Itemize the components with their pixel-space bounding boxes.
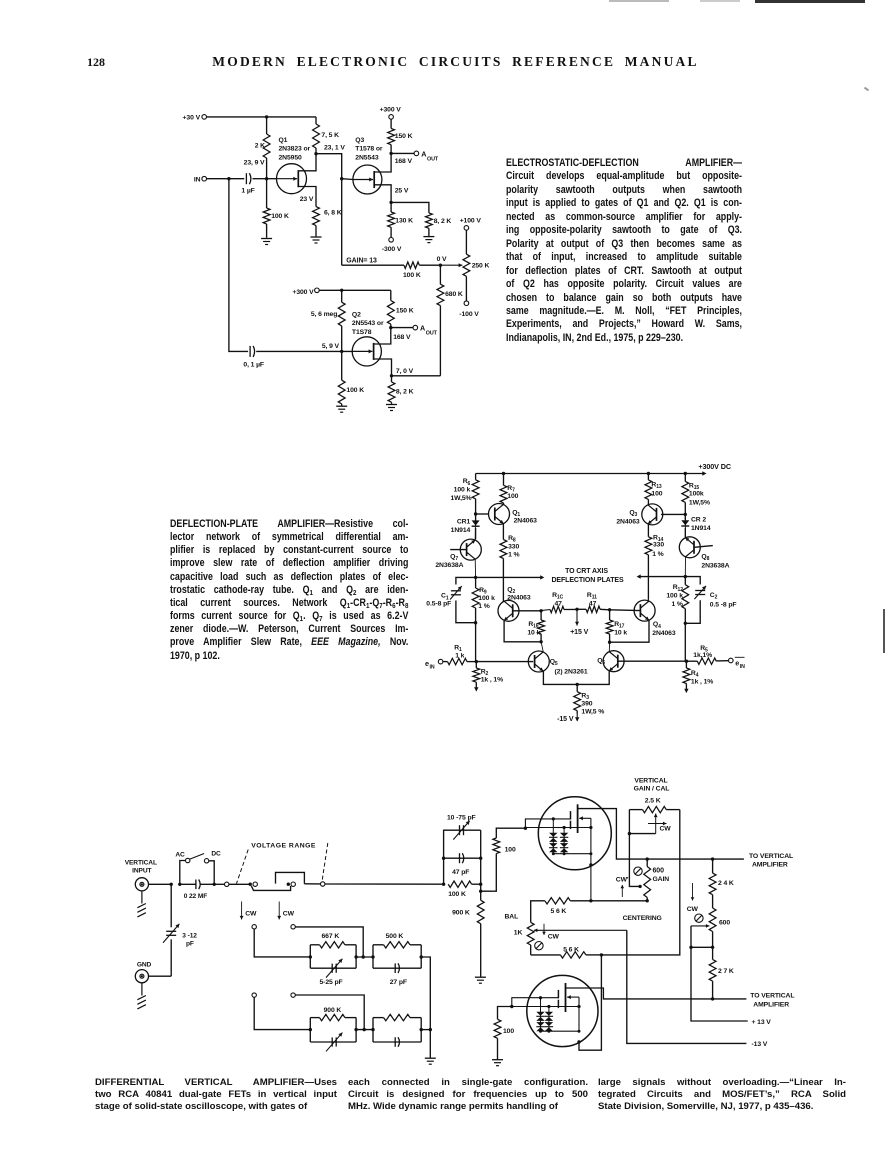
adjust symbol 600 output <box>695 914 703 922</box>
page number 128 <box>87 55 105 70</box>
label TO VERTICAL AMPLIFIER upper <box>749 853 793 869</box>
capacitor 27pF <box>373 963 421 985</box>
svg-text:CW': CW' <box>616 877 629 884</box>
resistor 150K Q3 <box>388 119 413 153</box>
terminal A OUT Q3 <box>391 149 439 162</box>
capacitor 10-75pF variable <box>444 814 481 884</box>
wire Q8 leads <box>684 514 686 576</box>
svg-text:23 V: 23 V <box>300 196 314 203</box>
transistor Q4 2N4063 <box>634 600 676 637</box>
svg-text:600: 600 <box>653 867 665 874</box>
page title <box>13 54 885 70</box>
resistor 130K <box>388 202 413 237</box>
resistor R17 10k <box>606 610 627 642</box>
wire Q2 emitter <box>504 620 541 641</box>
svg-text:CW: CW <box>660 826 672 833</box>
svg-text:+ 13 V: + 13 V <box>752 1019 772 1026</box>
wire gain line horizontal <box>342 264 404 266</box>
svg-text:1k,1%: 1k,1% <box>693 652 712 659</box>
wire +300V DC rail <box>476 471 707 475</box>
connector vertical input jack <box>135 878 148 891</box>
node IN branch <box>227 177 230 180</box>
node Q3 gate <box>340 177 343 180</box>
svg-text:47 pF: 47 pF <box>452 869 469 876</box>
transistor Q1 2N3823/2N5950 JFET <box>277 137 311 194</box>
svg-text:R13: R13 <box>651 482 661 491</box>
transistor Q7 2N3638A <box>435 539 481 569</box>
adjust symbol 600 GAIN <box>634 867 642 875</box>
svg-text:0, 1 µF: 0, 1 µF <box>243 361 264 368</box>
terminal +30 V <box>183 115 207 122</box>
resistor R12 100k 1% <box>666 577 688 662</box>
svg-text:330: 330 <box>653 541 664 548</box>
node Q1 gate <box>265 177 277 180</box>
svg-text:AC: AC <box>175 851 185 858</box>
resistor R14 330 1% <box>645 524 664 600</box>
svg-text:IN: IN <box>740 664 745 670</box>
resistor 5.6K upper <box>531 898 648 923</box>
svg-text:VERTICAL: VERTICAL <box>125 859 157 866</box>
svg-text:100: 100 <box>505 847 516 854</box>
svg-text:1 %: 1 % <box>508 552 519 559</box>
resistor R6 100k <box>450 474 479 515</box>
node R16 bottom <box>539 640 542 643</box>
svg-text:C2: C2 <box>710 592 718 601</box>
node after 0.22MF <box>213 883 216 886</box>
svg-text:5-25 pF: 5-25 pF <box>320 979 343 986</box>
node source bus <box>600 953 603 956</box>
wire Q3 source 25V <box>374 185 409 203</box>
wire Q2 base to R16 <box>513 610 541 612</box>
capacitor C2 0.5-8pF variable <box>685 577 736 624</box>
capacitor variable combo3 <box>310 1033 356 1052</box>
ground range combos <box>425 1058 436 1064</box>
svg-text:250 K: 250 K <box>472 262 490 269</box>
svg-text:TO CRT AXIS: TO CRT AXIS <box>565 568 608 575</box>
svg-text:6, 8 K: 6, 8 K <box>324 210 342 217</box>
resistor R5 1k 1% <box>686 645 728 665</box>
node R2 top <box>475 660 478 663</box>
wire Q4 base <box>610 609 641 612</box>
node +15V <box>575 608 578 611</box>
svg-text:25 V: 25 V <box>395 188 409 195</box>
svg-text:150 K: 150 K <box>395 133 413 140</box>
node combo2 left <box>371 955 374 958</box>
resistor R1 1k <box>443 645 476 665</box>
svg-text:47: 47 <box>555 600 563 607</box>
svg-text:Q8: Q8 <box>701 554 709 563</box>
terminal -300V <box>382 238 402 254</box>
svg-text:7, 5 K: 7, 5 K <box>321 132 339 139</box>
label VOLTAGE RANGE <box>251 843 316 850</box>
terminal A OUT Q2 <box>391 324 438 337</box>
svg-text:0 V: 0 V <box>437 256 447 263</box>
svg-text:IN: IN <box>430 664 435 670</box>
node bank1 switch joint <box>362 955 365 958</box>
svg-text:2.5 K: 2.5 K <box>645 798 661 805</box>
wire Q4 collector <box>647 600 649 601</box>
wire centering to -13V <box>627 930 747 1043</box>
transistor Q2 2N5543/T1S78 JFET <box>352 311 384 366</box>
ground GND jack <box>137 983 146 1009</box>
node combo2 right <box>420 955 431 1058</box>
svg-text:100 K: 100 K <box>403 272 421 279</box>
svg-text:5 6 K: 5 6 K <box>551 908 567 915</box>
resistor 900K bias <box>452 891 484 977</box>
resistor R4 1k 1% <box>683 661 713 689</box>
caption deflection-plate amplifier <box>170 518 408 663</box>
label VERTICAL INPUT <box>125 859 157 874</box>
diode CR2 1N914 <box>681 514 711 537</box>
svg-text:100: 100 <box>507 493 518 500</box>
svg-text:R6: R6 <box>463 478 471 487</box>
resistor 100K gain <box>403 262 440 279</box>
node 5.9V <box>322 343 344 353</box>
node R7 rail <box>502 472 505 475</box>
ground 100K Q2 <box>336 406 347 412</box>
node R17 top <box>608 608 611 611</box>
scan artifact right edge <box>883 609 885 653</box>
transistor Q5 2N3261 <box>528 651 588 676</box>
supply -15V arrow <box>557 714 579 724</box>
resistor 900K range <box>310 1007 356 1042</box>
svg-text:R16: R16 <box>528 621 538 630</box>
svg-text:2 4 K: 2 4 K <box>718 880 734 887</box>
svg-text:GAIN: GAIN <box>653 876 670 883</box>
node Q3 base <box>661 513 687 516</box>
svg-text:CR1: CR1 <box>457 518 471 525</box>
node Q2 output 168V <box>389 326 411 341</box>
svg-text:8, 2 K: 8, 2 K <box>434 218 452 225</box>
wire Q6 base <box>618 660 686 662</box>
node R4 top <box>685 660 688 663</box>
wire 2.5K right down <box>601 810 679 955</box>
svg-text:600: 600 <box>719 920 730 927</box>
svg-text:47: 47 <box>589 600 597 607</box>
potentiometer 600 GAIN <box>644 857 669 902</box>
adjust arrow CW 600 <box>687 883 699 913</box>
svg-text:A: A <box>421 149 426 158</box>
resistor R9 100k 1% <box>472 577 495 661</box>
svg-text:0.5 -8 pF: 0.5 -8 pF <box>710 602 737 609</box>
svg-text:1 %: 1 % <box>478 603 489 610</box>
wire Q5 emitter <box>543 671 577 684</box>
resistor R16 10k <box>527 611 544 642</box>
ground arrow R2 <box>474 687 478 691</box>
svg-text:e: e <box>425 659 429 668</box>
wire IN to C1 <box>207 178 245 180</box>
svg-text:1W,5%: 1W,5% <box>689 499 710 506</box>
wire input to junction <box>149 883 172 885</box>
node 5.6meg top <box>340 289 343 292</box>
svg-text:+300V DC: +300V DC <box>698 462 731 471</box>
svg-text:100 k: 100 k <box>454 487 471 494</box>
label TO VERTICAL AMPLIFIER lower <box>750 993 794 1009</box>
wire Q5 base <box>476 661 533 663</box>
ground arrow R4 <box>684 689 688 693</box>
svg-text:T1S78: T1S78 <box>352 329 372 336</box>
svg-text:900 K: 900 K <box>452 909 470 916</box>
wire FET1 drain output <box>578 809 744 860</box>
capacitor 5-25pF variable <box>310 959 356 986</box>
svg-text:1 %: 1 % <box>652 551 663 558</box>
resistor 667K <box>310 933 356 968</box>
node combo4 left <box>371 1028 374 1031</box>
terminal +300V Q2 <box>292 288 319 296</box>
svg-text:100: 100 <box>651 490 662 497</box>
svg-text:2N3823 or: 2N3823 or <box>279 146 311 153</box>
resistor R15 100k <box>682 472 710 515</box>
adjust arrow CW BAL <box>542 924 559 941</box>
label -13V <box>752 1041 768 1048</box>
wire Q6 emitter <box>577 671 609 684</box>
svg-text:A: A <box>420 324 425 333</box>
svg-text:R11: R11 <box>587 592 597 601</box>
svg-text:+15 V: +15 V <box>570 629 588 636</box>
node FET1 source to 5.6K <box>589 899 592 902</box>
adjust arrow CW 1 <box>240 902 257 920</box>
node combo3 right <box>354 1028 373 1031</box>
wire Q3 drain <box>374 153 391 172</box>
adjust arrow CW 2.5K <box>648 822 671 833</box>
wire +13V <box>691 947 748 1021</box>
svg-text:Q5: Q5 <box>550 658 558 667</box>
ground 8.2K Q2 <box>386 405 397 411</box>
resistor 5.6K lower <box>531 946 602 958</box>
svg-text:168 V: 168 V <box>395 158 413 165</box>
node deflection right <box>684 575 687 578</box>
resistor combo4 <box>373 1014 421 1042</box>
node 100K input right <box>479 830 482 891</box>
transistor Q6 2N3261 <box>597 651 624 672</box>
wire Q4 emitter <box>610 620 649 642</box>
svg-text:100 K: 100 K <box>448 891 466 898</box>
contact range bank 1 left <box>252 925 310 957</box>
contact range bank 1 right <box>291 925 363 957</box>
label +13V <box>752 1019 772 1026</box>
svg-text:-15 V: -15 V <box>557 716 574 723</box>
svg-text:1K: 1K <box>514 929 523 936</box>
svg-text:AMPLIFIER: AMPLIFIER <box>752 862 788 869</box>
svg-text:100 k: 100 k <box>478 595 495 602</box>
node AC branch <box>178 883 181 886</box>
resistor R7 100 <box>500 474 519 505</box>
svg-text:CW: CW <box>548 933 560 940</box>
svg-text:100 K: 100 K <box>271 213 289 220</box>
node 2K top <box>265 115 268 118</box>
svg-text:5, 6 meg: 5, 6 meg <box>311 311 337 318</box>
svg-text:1W,5%: 1W,5% <box>450 495 471 502</box>
wire +30V rail <box>207 116 317 118</box>
node combo4 right <box>420 1028 432 1031</box>
wire wiper to 250K <box>440 263 462 267</box>
resistor 100 FET2 gate <box>494 1007 514 1060</box>
label VERTICAL GAIN/CAL <box>634 778 670 793</box>
svg-text:2N4063: 2N4063 <box>616 519 640 526</box>
node C1 bottom <box>474 621 477 624</box>
node 2.4K top <box>711 857 714 860</box>
resistor 100K input <box>448 881 481 898</box>
switch range pole 1 <box>249 882 291 890</box>
svg-text:GND: GND <box>137 962 152 969</box>
transistor Q3 T1578/2N5543 JFET <box>353 137 383 194</box>
svg-text:2N3638A: 2N3638A <box>435 562 463 569</box>
node 7.0V <box>390 374 393 377</box>
svg-text:100 K: 100 K <box>346 387 364 394</box>
svg-text:DEFLECTION PLATES: DEFLECTION PLATES <box>551 577 623 584</box>
label +300V DC <box>698 462 731 471</box>
svg-text:GAIN= 13: GAIN= 13 <box>346 258 377 265</box>
node R13 rail <box>647 472 650 475</box>
resistor 100 gate <box>481 828 526 891</box>
svg-text:Q2: Q2 <box>352 311 361 318</box>
svg-text:BAL: BAL <box>505 914 519 921</box>
node 2.7K bottom <box>711 997 714 1000</box>
node FET1 gate <box>524 827 527 830</box>
node 900K top <box>479 890 482 893</box>
terminal +300V Q3 <box>380 107 402 120</box>
ground vertical input <box>137 891 146 917</box>
node combo3 left <box>309 1028 312 1031</box>
callout dashed left <box>237 850 249 884</box>
terminal eIN left <box>425 659 443 671</box>
label CENTERING <box>623 915 662 922</box>
svg-text:100 k: 100 k <box>666 593 683 600</box>
connector GND jack <box>135 970 171 983</box>
svg-text:+30 V: +30 V <box>183 115 201 122</box>
resistor 8.2K Q2 <box>388 376 414 404</box>
transistor Q8 2N3638A <box>679 537 729 570</box>
contact range bank 2 right <box>291 993 364 1030</box>
svg-text:R17: R17 <box>614 621 624 630</box>
svg-text:INPUT: INPUT <box>132 868 151 875</box>
wire +300V Q2 rail <box>319 289 391 291</box>
svg-text:680 K: 680 K <box>445 291 463 298</box>
svg-text:23, 1 V: 23, 1 V <box>324 144 345 151</box>
svg-text:1 k: 1 k <box>455 652 464 659</box>
adjust symbol BAL <box>535 942 543 950</box>
svg-text:e: e <box>735 658 739 667</box>
capacitor C1 0.5-8pF variable <box>426 577 475 622</box>
svg-text:VERTICAL: VERTICAL <box>634 778 667 785</box>
ground 8.2K Q3 <box>423 237 434 243</box>
svg-text:2 K: 2 K <box>255 143 265 150</box>
svg-text:1W,5 %: 1W,5 % <box>581 709 604 716</box>
wire IN to 0.1uF <box>229 179 248 352</box>
node deflection left <box>474 576 477 579</box>
caption differential vertical amplifier column 2 <box>348 1077 588 1113</box>
svg-text:10 -75 pF: 10 -75 pF <box>447 814 476 821</box>
node 100K input left <box>442 883 445 886</box>
wire 2.5K left down to gain wiper <box>629 834 641 889</box>
svg-text:Q3: Q3 <box>355 137 364 144</box>
svg-text:10 k: 10 k <box>614 630 627 637</box>
svg-text:Q4: Q4 <box>653 621 661 630</box>
svg-text:+300 V: +300 V <box>292 289 314 296</box>
capacitor 0.22MF <box>180 880 214 901</box>
resistor R2 1k 1% <box>473 662 503 688</box>
resistor R8 330 1% <box>500 524 520 602</box>
svg-text:2N4063: 2N4063 <box>514 518 538 525</box>
node R3 top <box>576 683 579 686</box>
switch range pole 2 <box>276 872 444 886</box>
terminal -100V <box>459 301 479 318</box>
transistor Q3 2N4063 <box>616 504 662 526</box>
resistor 2.7K <box>709 947 734 999</box>
callout dashed right <box>322 843 328 883</box>
terminal +100V <box>460 217 482 230</box>
wire FET2 drain output <box>566 988 747 999</box>
svg-text:2N4063: 2N4063 <box>652 630 676 637</box>
wire Q5 collector <box>541 642 543 652</box>
svg-text:900 K: 900 K <box>324 1007 342 1014</box>
svg-text:-13 V: -13 V <box>752 1041 768 1048</box>
label GND <box>137 962 152 969</box>
ground 900K <box>475 977 486 983</box>
svg-text:+300 V: +300 V <box>380 107 402 114</box>
potentiometer 600 output <box>691 908 730 947</box>
svg-text:-100 V: -100 V <box>459 311 479 318</box>
node 600 bottom <box>689 946 714 949</box>
caption electrostatic-deflection amplifier <box>506 157 742 345</box>
capacitor 1uF <box>241 173 266 194</box>
svg-text:Q7: Q7 <box>450 553 458 562</box>
svg-text:(2) 2N3261: (2) 2N3261 <box>555 669 588 676</box>
wire Q6 collector <box>608 642 610 651</box>
wire 7.0V to 680K <box>392 375 441 377</box>
node 47pF left <box>442 857 445 860</box>
svg-text:+100 V: +100 V <box>460 217 482 224</box>
node 25V <box>389 201 392 204</box>
svg-text:1 %: 1 % <box>671 601 682 608</box>
label 23.9V <box>244 160 265 167</box>
svg-text:2N4063: 2N4063 <box>507 595 531 602</box>
terminal eIN-bar right <box>729 657 746 670</box>
caption differential vertical amplifier column 3 <box>598 1077 846 1113</box>
supply +15V arrow <box>570 609 588 636</box>
svg-text:0 22 MF: 0 22 MF <box>184 893 208 900</box>
svg-text:GAIN / CAL: GAIN / CAL <box>634 785 670 792</box>
wire to CRT deflection right <box>637 574 686 578</box>
wire Q7 collector down <box>474 559 476 577</box>
svg-text:150 K: 150 K <box>396 307 414 314</box>
scan artifact top edge <box>755 0 865 3</box>
svg-text:1N914: 1N914 <box>691 525 711 532</box>
resistor 100K Q2 gate <box>338 351 364 405</box>
label TO CRT AXIS DEFLECTION PLATES <box>551 568 623 584</box>
node FET2 gate <box>510 1005 513 1008</box>
svg-text:5, 9 V: 5, 9 V <box>322 343 340 350</box>
svg-text:TO VERTICAL: TO VERTICAL <box>750 993 794 1000</box>
capacitor 0.1uF <box>243 346 352 369</box>
svg-text:IN: IN <box>194 177 201 184</box>
svg-text:DC: DC <box>211 850 221 857</box>
resistor R3 390 1W 5% <box>574 684 604 715</box>
adjust arrow CW 2 <box>277 902 294 920</box>
svg-text:CW: CW <box>687 906 699 913</box>
svg-text:2N5543 or: 2N5543 or <box>352 320 384 327</box>
resistor 5.6meg <box>311 290 345 351</box>
label GAIN=13 <box>346 258 377 265</box>
node combo1 right <box>354 955 373 958</box>
resistor R1C 47 <box>541 592 577 613</box>
svg-text:CW: CW <box>245 910 257 917</box>
ground 100K <box>261 239 272 245</box>
svg-text:VOLTAGE RANGE: VOLTAGE RANGE <box>251 843 316 850</box>
svg-text:500 K: 500 K <box>386 933 404 940</box>
svg-text:AMPLIFIER: AMPLIFIER <box>753 1001 789 1008</box>
svg-text:R1C: R1C <box>552 592 563 601</box>
